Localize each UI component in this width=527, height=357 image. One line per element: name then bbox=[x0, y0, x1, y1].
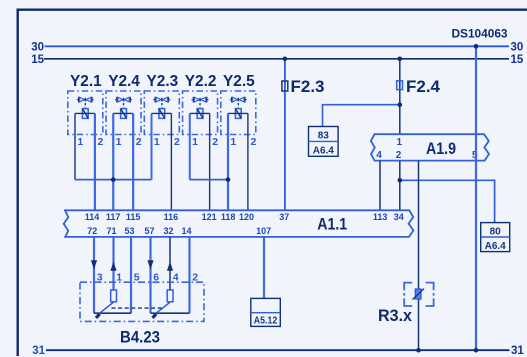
Y2.2 connector bar bbox=[190, 112, 210, 114]
solenoid valve Y2.1 bbox=[68, 73, 104, 148]
wire Y2.1 pin1 to common bus bbox=[74, 113, 76, 179]
bus 31 rail bbox=[46, 349, 510, 351]
potentiometer left wiper bbox=[98, 302, 114, 314]
potentiometer right wiper bbox=[154, 302, 170, 314]
svg-text:Y2.1: Y2.1 bbox=[70, 73, 102, 90]
A1.1 bottom row pin labels bbox=[87, 226, 271, 236]
arrow up on wire 71-1 bbox=[110, 262, 116, 271]
wire Y2.2 pin1 to common bus 2 bbox=[189, 113, 191, 179]
svg-text:2: 2 bbox=[174, 136, 180, 148]
svg-text:107: 107 bbox=[256, 226, 271, 236]
svg-text:DS104063: DS104063 bbox=[452, 27, 508, 41]
svg-text:80: 80 bbox=[490, 226, 502, 237]
svg-text:118: 118 bbox=[221, 212, 236, 222]
Y2.3 coil bbox=[159, 109, 165, 119]
svg-text:31: 31 bbox=[511, 345, 524, 357]
svg-text:Y2.5: Y2.5 bbox=[223, 73, 255, 90]
Y2.4 coil bbox=[121, 109, 127, 119]
connector box 83 / A6.4 bbox=[309, 127, 339, 157]
wire Y2.1 pin2 to A1.1 pin114 bbox=[94, 113, 96, 210]
wire Y2.3 pin2 to A1.1 pin116 bbox=[170, 113, 172, 210]
svg-text:83: 83 bbox=[318, 131, 330, 142]
junction dot on 31 rail at x 476 bbox=[474, 348, 479, 353]
solenoid valve Y2.2 bbox=[183, 73, 219, 148]
wire pin14 to B4.23 pin2 bbox=[188, 237, 190, 313]
Y2.5 connector bar bbox=[228, 112, 248, 114]
svg-text:32: 32 bbox=[163, 226, 173, 236]
wire pin57 to B4.23 pin6 bbox=[149, 237, 151, 313]
bus 30 rail bbox=[45, 45, 509, 47]
wire pin71 to B4.23 pin1 bbox=[112, 237, 114, 291]
svg-text:1: 1 bbox=[77, 136, 83, 148]
wire A1.9 pin4 to A1.1 pin113 bbox=[379, 161, 381, 211]
arrow down on wire 57-6 bbox=[147, 260, 153, 269]
svg-text:2: 2 bbox=[251, 136, 257, 148]
svg-text:2: 2 bbox=[212, 136, 218, 148]
svg-text:113: 113 bbox=[373, 212, 388, 222]
svg-text:R3.x: R3.x bbox=[378, 306, 413, 325]
junction dot on 15 rail at F2.3 bbox=[283, 57, 288, 62]
svg-text:57: 57 bbox=[144, 226, 154, 236]
Y2.5 valve symbol bbox=[230, 97, 247, 109]
mechanical link dashed bbox=[112, 307, 164, 309]
bus 15 rail bbox=[44, 58, 509, 60]
junction dot on 31 rail at x 418 bbox=[416, 348, 421, 353]
B4.23 dash-dot box bbox=[80, 282, 204, 321]
junction dot bus1 bbox=[111, 177, 116, 182]
wire F2.4 vertical bbox=[399, 59, 401, 134]
fuse F2.4 bbox=[397, 81, 403, 90]
connector box A5.12 bbox=[251, 298, 280, 326]
svg-text:121: 121 bbox=[202, 212, 217, 222]
svg-text:37: 37 bbox=[279, 212, 289, 222]
arrow down on wire 72-3 bbox=[91, 260, 97, 269]
potentiometer right track bbox=[167, 290, 173, 302]
svg-text:2: 2 bbox=[396, 150, 402, 161]
svg-text:1: 1 bbox=[230, 136, 236, 148]
svg-text:1: 1 bbox=[154, 136, 160, 148]
wire Y2.4 pin2 to A1.1 pin115 bbox=[132, 113, 134, 210]
potentiometer left wiper mark bbox=[96, 314, 100, 318]
Y2.3 dash-dot enclosure bbox=[144, 91, 179, 135]
frame left border bbox=[17, 9, 19, 357]
Y2.5 dash-dot enclosure bbox=[221, 91, 256, 135]
svg-text:F2.4: F2.4 bbox=[406, 78, 441, 96]
common bus group 1 bbox=[75, 179, 152, 181]
Y2.4 connector bar bbox=[113, 112, 133, 114]
svg-text:A6.4: A6.4 bbox=[313, 146, 335, 157]
junction dot on 15 rail at F2.4 bbox=[398, 57, 403, 62]
svg-text:A1.1: A1.1 bbox=[317, 215, 347, 234]
wire pin32 to B4.23 pin4 bbox=[169, 237, 171, 291]
svg-text:B4.23: B4.23 bbox=[120, 327, 160, 346]
resistor R3.x dashed box bbox=[404, 283, 433, 306]
svg-text:31: 31 bbox=[32, 345, 45, 357]
wire Y2.5 pin1 common to A1.1 pin118 bbox=[227, 113, 229, 210]
svg-text:A5.12: A5.12 bbox=[254, 316, 278, 327]
svg-text:Y2.4: Y2.4 bbox=[108, 73, 140, 90]
junction dot bus2 bbox=[226, 177, 231, 182]
svg-text:34: 34 bbox=[394, 212, 404, 222]
junction dot at F2.4 branch bbox=[398, 102, 403, 107]
potentiometer left track bbox=[111, 290, 117, 302]
svg-text:71: 71 bbox=[106, 226, 116, 236]
wire F2.3 vertical bbox=[284, 59, 286, 211]
frame top border bbox=[17, 8, 527, 10]
Y2.4 dash-dot enclosure bbox=[106, 91, 141, 135]
solenoid valve Y2.5 bbox=[221, 73, 257, 148]
wire branch to 83/A6.4 bbox=[323, 105, 400, 127]
B4.23 pin labels bbox=[97, 271, 199, 283]
wire from 30 rail through A1.9 pin 5 down to 31 rail bbox=[475, 46, 477, 350]
wire pin72 to B4.23 pin3 bbox=[93, 237, 95, 313]
svg-text:1: 1 bbox=[397, 137, 403, 148]
resistor R3.x element bbox=[415, 289, 421, 299]
wire Y2.3 pin1 to common bus bbox=[151, 113, 153, 179]
svg-text:30: 30 bbox=[511, 42, 524, 54]
svg-text:15: 15 bbox=[511, 54, 524, 66]
svg-text:2: 2 bbox=[136, 136, 142, 148]
Y2.1 connector bar bbox=[75, 112, 95, 114]
Y2.1 coil bbox=[82, 109, 88, 119]
junction dot on 30 rail bbox=[474, 44, 479, 49]
svg-text:120: 120 bbox=[239, 212, 254, 222]
Y2.3 valve symbol bbox=[153, 97, 170, 109]
wire branch pin2 to 80/A6.4 bbox=[400, 180, 495, 222]
svg-text:115: 115 bbox=[126, 212, 141, 222]
svg-text:30: 30 bbox=[31, 42, 44, 54]
svg-text:F2.3: F2.3 bbox=[291, 78, 325, 96]
pin 5 wire redraw over box bbox=[475, 134, 477, 160]
svg-text:114: 114 bbox=[85, 212, 100, 222]
svg-text:A6.4: A6.4 bbox=[485, 241, 507, 252]
wire Y2.5 pin2 to A1.1 pin120 bbox=[247, 113, 249, 210]
A1.1 top row pin labels bbox=[85, 212, 404, 222]
Y2.5 coil bbox=[235, 109, 241, 119]
solenoid valve Y2.3 bbox=[144, 73, 180, 148]
potentiometer right wiper mark bbox=[153, 314, 157, 318]
Y2.4 valve symbol bbox=[115, 97, 132, 109]
svg-text:14: 14 bbox=[181, 226, 191, 236]
Y2.1 dash-dot enclosure bbox=[68, 91, 103, 135]
svg-text:72: 72 bbox=[87, 226, 97, 236]
wire pin53 to B4.23 pin5 bbox=[130, 237, 132, 313]
Y2.3 connector bar bbox=[152, 112, 172, 114]
fuse F2.3 bbox=[282, 81, 288, 91]
junction dot on pin2 wire bbox=[398, 178, 403, 183]
Y2.2 dash-dot enclosure bbox=[183, 91, 218, 135]
Y2.2 valve symbol bbox=[191, 97, 208, 109]
svg-text:1: 1 bbox=[192, 136, 198, 148]
svg-text:1: 1 bbox=[116, 136, 122, 148]
svg-text:A1.9: A1.9 bbox=[426, 139, 456, 158]
control unit A1.9 bbox=[371, 134, 489, 160]
connector box 80 / A6.4 bbox=[481, 223, 510, 252]
svg-text:116: 116 bbox=[164, 212, 179, 222]
Y2.1 valve symbol bbox=[77, 97, 94, 109]
svg-text:Y2.3: Y2.3 bbox=[147, 73, 179, 90]
wire pin107 to A5.12 bbox=[263, 237, 265, 299]
svg-text:53: 53 bbox=[124, 226, 134, 236]
svg-text:15: 15 bbox=[31, 54, 44, 66]
svg-text:2: 2 bbox=[98, 136, 104, 148]
svg-text:Y2.2: Y2.2 bbox=[185, 73, 217, 90]
wire Y2.4 pin1 common to A1.1 pin117 bbox=[112, 113, 114, 210]
common bus group 2 bbox=[190, 179, 228, 181]
wire A1.9 pin2 to A1.1 pin34 bbox=[399, 161, 401, 211]
arrow up on wire 32-4 bbox=[167, 262, 173, 271]
solenoid valve Y2.4 bbox=[106, 73, 142, 148]
wire Y2.2 pin2 to A1.1 pin121 bbox=[209, 113, 211, 210]
potentiometer left bottom wire bbox=[94, 312, 131, 314]
svg-text:117: 117 bbox=[106, 212, 121, 222]
svg-text:4: 4 bbox=[376, 150, 382, 161]
potentiometer right bottom wire bbox=[151, 312, 190, 314]
wire A1.9 to R3.x to 31 rail bbox=[418, 161, 420, 351]
Y2.2 coil bbox=[197, 109, 203, 119]
